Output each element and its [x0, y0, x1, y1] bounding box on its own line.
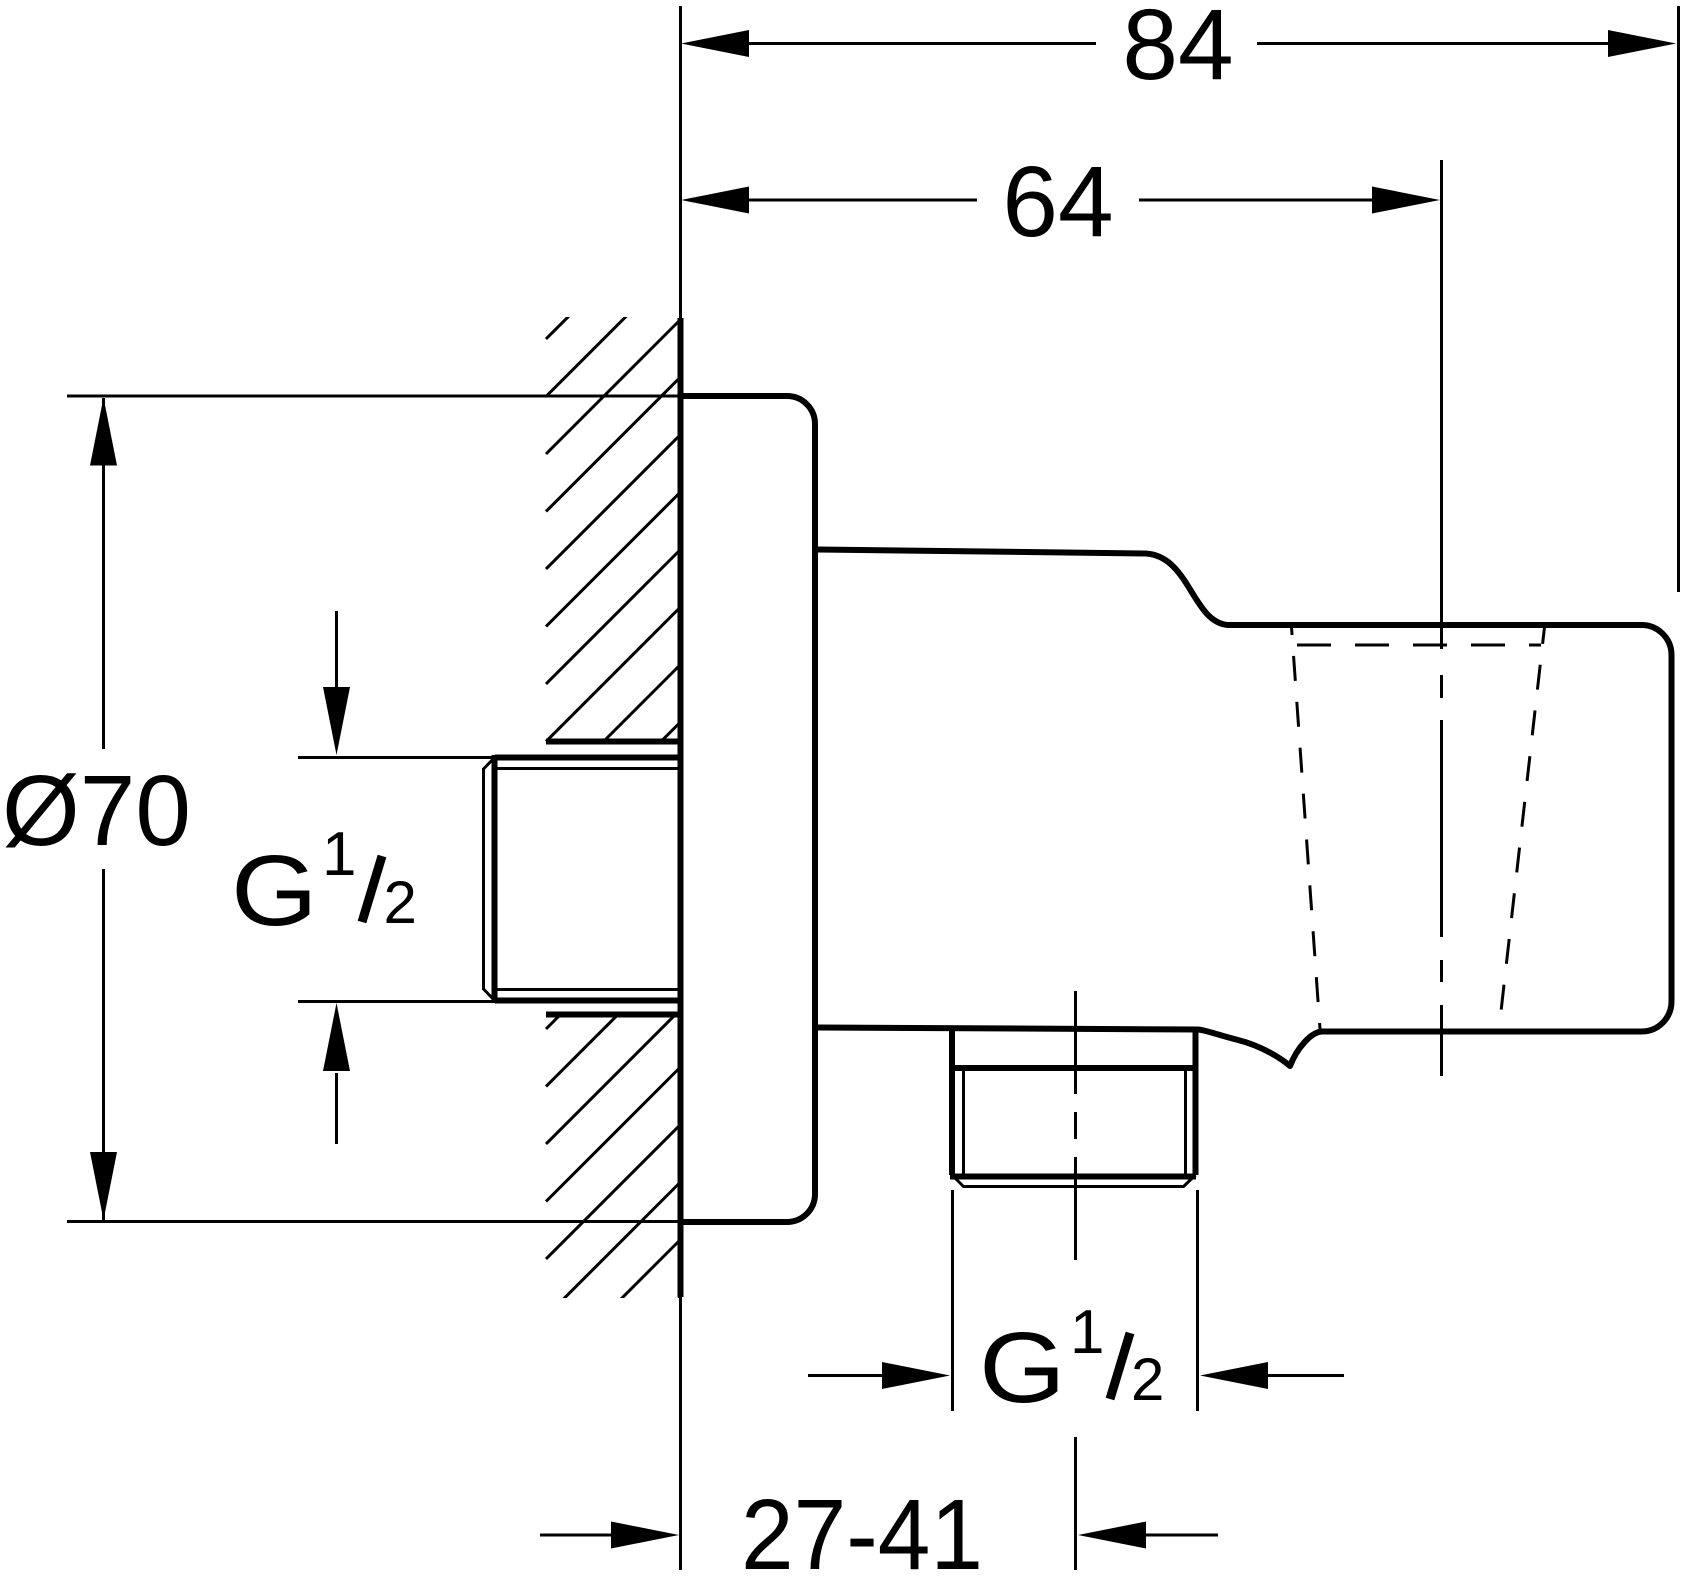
wall inlet thread G1/2 crest: [495, 755, 681, 761]
body outline: [818, 550, 1672, 1067]
outlet thread G1/2 crest: [949, 1029, 955, 1175]
svg-text:2: 2: [1131, 1346, 1164, 1413]
wall inlet thread chamfer: [484, 756, 497, 769]
svg-text:2: 2: [384, 869, 417, 936]
wall hatch: [546, 205, 680, 1432]
inlet thread OD dimension: [298, 611, 494, 1144]
outlet thread root: [962, 1067, 965, 1176]
wall face extension line top (84/64 datum): [679, 6, 682, 318]
svg-text:27-41: 27-41: [741, 1479, 983, 1576]
wall face: [678, 318, 684, 1297]
outlet thread tip: [963, 1185, 1184, 1188]
svg-text:G: G: [979, 1312, 1066, 1423]
svg-text:Ø70: Ø70: [2, 755, 191, 867]
svg-text:1: 1: [1070, 1298, 1104, 1367]
dimension 64: [681, 146, 1442, 1076]
wall inlet thread root: [497, 767, 680, 770]
svg-text:84: 84: [1122, 0, 1233, 101]
dimension 27-41: [540, 1479, 1218, 1576]
svg-text:G: G: [231, 835, 318, 946]
svg-text:64: 64: [1002, 146, 1113, 258]
outlet G1/2 label: [979, 1298, 1164, 1424]
wall face extension line bottom (27-41 datum): [679, 1297, 682, 1570]
concealed supply pipe: [546, 739, 678, 745]
outlet thread start: [952, 1065, 1195, 1071]
holder cone hidden lines: [1292, 627, 1321, 1029]
wall inlet thread tip: [482, 768, 485, 990]
dimension 84: [681, 0, 1679, 592]
outlet thread chamfer: [952, 1175, 964, 1187]
outlet thread end face: [950, 1174, 1196, 1180]
outlet centerline: [1074, 991, 1077, 1570]
wall inlet thread end face: [492, 755, 498, 1003]
escutcheon plate: [681, 396, 815, 1222]
outlet G1/2 dimension: [808, 1190, 1344, 1411]
inlet G1/2 label: [231, 820, 417, 947]
svg-text:1: 1: [322, 820, 356, 889]
dimension D70: [2, 396, 680, 1222]
